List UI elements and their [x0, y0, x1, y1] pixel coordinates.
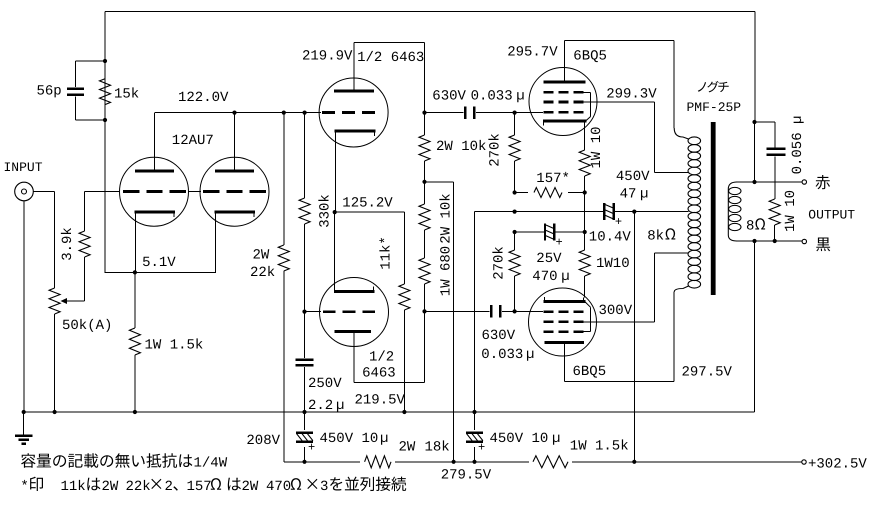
svg-text:0.033: 0.033	[481, 347, 523, 363]
svg-text:2W: 2W	[102, 479, 119, 495]
svg-text:47: 47	[620, 187, 637, 203]
12AU7b grid	[189, 191, 202, 193]
wire B+ rail	[284, 461, 360, 463]
svg-text:3: 3	[320, 479, 328, 495]
resistor R 1W 1.5k	[533, 456, 568, 468]
resistor R 270k (a)	[514, 113, 516, 135]
svg-text:219.5V: 219.5V	[355, 393, 406, 409]
svg-text:+302.5V: +302.5V	[808, 457, 867, 473]
6BQ5b grid g3	[544, 330, 554, 333]
OPT core	[711, 122, 716, 295]
svg-text:25V: 25V	[536, 251, 562, 267]
ground symbol	[23, 412, 25, 435]
capacitor C 630V 0.033u (top)	[425, 112, 464, 114]
terminal red	[802, 180, 806, 184]
wire feedback from red terminal	[754, 12, 756, 123]
capacitor C 450V 10u (a) electrolytic	[304, 412, 306, 430]
svg-text:50k(A): 50k(A)	[62, 318, 112, 334]
node plate b	[232, 111, 236, 115]
tube 12AU7 triode 1 envelope	[120, 157, 189, 226]
svg-text:0.033: 0.033	[471, 89, 513, 105]
transformer T1 label	[698, 82, 706, 92]
svg-text:2W 10k: 2W 10k	[436, 139, 486, 155]
resistor R 2W 18k	[365, 456, 391, 468]
svg-text:470: 470	[266, 479, 291, 495]
wire ground/feedback bus	[24, 411, 755, 413]
wire row C	[515, 231, 545, 233]
svg-text:1/2 6463: 1/2 6463	[357, 50, 424, 66]
svg-text:1/4W: 1/4W	[194, 456, 228, 472]
wire B+ feed	[633, 212, 635, 462]
svg-text:1W 1.5k: 1W 1.5k	[145, 338, 204, 354]
6BQ5a grid g2 (screen)	[544, 101, 554, 104]
svg-text:µ: µ	[516, 89, 524, 105]
OPT secondary winding	[728, 182, 737, 241]
svg-text:125.2V: 125.2V	[342, 196, 393, 212]
OPT primary winding	[674, 128, 688, 139]
wire 10.4V row B	[475, 211, 605, 213]
svg-text:1W 1.5k: 1W 1.5k	[570, 439, 629, 455]
wire left feedback drop	[104, 12, 106, 62]
svg-text:330k: 330k	[317, 194, 333, 228]
svg-text:µ: µ	[561, 269, 569, 285]
svg-text:295.7V: 295.7V	[507, 45, 558, 61]
svg-text:2W 10k: 2W 10k	[438, 193, 454, 243]
capacitor C 450V 10u (b) electrolytic	[474, 412, 476, 430]
capacitor C 2.2u 250V	[304, 312, 306, 358]
svg-text:18k: 18k	[425, 440, 450, 456]
resistor R 2W 10k (a)	[424, 113, 426, 135]
svg-text:6463: 6463	[362, 366, 396, 382]
svg-text:12AU7: 12AU7	[172, 133, 214, 149]
resistor R 2W 22k	[283, 113, 285, 245]
wire plate to OPT bottom	[565, 381, 675, 383]
resistor R 11k*	[399, 284, 410, 310]
6463a cathode	[335, 130, 376, 133]
svg-text:279.5V: 279.5V	[441, 468, 492, 484]
svg-text:15k: 15k	[114, 87, 139, 103]
node 56p/15k top	[103, 59, 107, 63]
svg-text:*: *	[20, 479, 28, 495]
node cathode/1W1.5k	[133, 270, 137, 274]
svg-text:0.056 µ: 0.056 µ	[790, 116, 806, 175]
note line 1	[21, 453, 35, 468]
capacitor 56p	[76, 60, 106, 62]
svg-text:22k: 22k	[250, 265, 275, 281]
12AU7a grid	[85, 191, 120, 193]
svg-text:219.9V: 219.9V	[302, 49, 353, 65]
node 2W22k top	[282, 111, 286, 115]
svg-text:630V: 630V	[432, 89, 466, 105]
6BQ5b grid g2 (screen)	[544, 320, 554, 323]
12AU7a plate	[135, 170, 174, 173]
svg-text:2: 2	[165, 479, 173, 495]
svg-text:630V: 630V	[482, 328, 516, 344]
wire screen 299.3V	[584, 101, 655, 103]
wire red output line	[754, 122, 756, 182]
svg-text:250V: 250V	[308, 376, 342, 392]
6BQ5b cathode (top)	[544, 300, 586, 303]
resistor R 1W 10 damping	[769, 199, 780, 225]
resistor R 1W 1.5k	[134, 272, 136, 328]
6463b grid	[305, 311, 322, 313]
6463a grid	[322, 111, 335, 114]
svg-text:297.5V: 297.5V	[682, 365, 733, 381]
svg-text:56p: 56p	[37, 84, 62, 100]
svg-text:+: +	[555, 235, 562, 249]
svg-text:157*: 157*	[536, 171, 570, 187]
wire 122.0V plate line	[155, 112, 322, 114]
wire plate to OPT top	[565, 40, 675, 42]
12AU7a cathode	[135, 210, 176, 213]
node 6BQ5b grid line left	[422, 309, 426, 313]
svg-text:157: 157	[187, 479, 212, 495]
svg-text:1/2: 1/2	[369, 349, 394, 365]
tube U2b 1/2 6463	[320, 278, 389, 347]
svg-text:450V 10: 450V 10	[490, 431, 549, 447]
capacitor C 0.056u	[755, 121, 776, 123]
terminal B+	[802, 460, 806, 464]
svg-text:5.1V: 5.1V	[142, 255, 176, 271]
svg-text:µ: µ	[526, 347, 534, 363]
resistor R 330k	[304, 113, 306, 198]
svg-text:INPUT: INPUT	[4, 160, 43, 175]
6BQ5b plate (bottom)	[545, 341, 584, 344]
svg-text:11k: 11k	[61, 479, 86, 495]
svg-text:8k: 8k	[647, 229, 664, 245]
wire black output line	[736, 240, 802, 242]
svg-text:2W: 2W	[253, 247, 270, 263]
capacitor C 630V 0.033u (bottom)	[425, 310, 490, 312]
tube 12AU7 triode 2 envelope	[200, 157, 269, 226]
node 56p/15k bottom	[103, 118, 107, 122]
wire 125.2V to 11k	[335, 211, 405, 213]
svg-text:PMF-25P: PMF-25P	[687, 100, 742, 115]
svg-text:270k: 270k	[487, 133, 503, 167]
12AU7b cathode	[215, 210, 256, 213]
capacitor C 450V 47u electrolytic	[603, 203, 605, 220]
terminal black	[802, 239, 806, 243]
svg-text:+: +	[308, 441, 315, 455]
input jack J1	[15, 182, 34, 201]
svg-text:450V: 450V	[616, 169, 650, 185]
wire screen 300V	[584, 321, 655, 323]
svg-text:2W: 2W	[242, 479, 259, 495]
svg-text:450V 10: 450V 10	[320, 431, 379, 447]
node coupling 1 right	[513, 111, 517, 115]
node 125.2V	[333, 210, 337, 214]
wire top feedback rail	[105, 11, 755, 13]
svg-text:208V: 208V	[246, 433, 280, 449]
svg-text:1W 10: 1W 10	[589, 126, 605, 168]
12AU7b plate	[215, 170, 254, 173]
svg-text:10.4V: 10.4V	[589, 230, 632, 246]
svg-text:470: 470	[532, 269, 557, 285]
wire jack tip to volume	[33, 191, 54, 193]
tube V2 6BQ5 (lower)	[529, 288, 597, 356]
resistor R 270k (b)	[514, 232, 516, 250]
svg-text:6BQ5: 6BQ5	[573, 49, 607, 65]
6BQ5b grid g1	[515, 310, 543, 312]
svg-text:300V: 300V	[599, 303, 633, 319]
6BQ5a grid g1	[515, 112, 543, 114]
wire plate feed 6463a	[425, 181, 454, 183]
node 330k top	[303, 111, 307, 115]
resistor R 1W 680	[419, 258, 430, 284]
node coupling 2 right	[513, 309, 517, 313]
capacitor C 25V 470u electrolytic	[544, 224, 546, 241]
6BQ5a plate	[544, 81, 586, 84]
wire black to ground line	[754, 241, 756, 412]
svg-text:6BQ5: 6BQ5	[573, 364, 607, 380]
wire jack sleeve down	[23, 201, 25, 412]
svg-text:3.9k: 3.9k	[60, 227, 76, 261]
wire cathode bus 5.1V	[105, 271, 216, 273]
volume pot VR 50k(A)	[49, 288, 60, 314]
svg-text:8: 8	[746, 219, 754, 235]
svg-text:22k: 22k	[126, 479, 151, 495]
svg-text:µ: µ	[552, 431, 560, 447]
node coupling 1	[422, 111, 426, 115]
svg-text:2W: 2W	[399, 440, 416, 456]
resistor R 2W 10k (b)	[419, 204, 430, 230]
6BQ5a grid g3	[544, 91, 554, 94]
svg-text:122.0V: 122.0V	[178, 90, 229, 106]
node 279.5V feed	[422, 180, 426, 184]
resistor R 15k	[100, 79, 111, 105]
svg-text:1W10: 1W10	[596, 256, 630, 272]
resistor R 1W 10 (b)	[584, 232, 586, 250]
svg-text:1W 680: 1W 680	[438, 246, 454, 296]
svg-text:OUTPUT: OUTPUT	[808, 208, 855, 223]
svg-text:11k*: 11k*	[378, 236, 394, 270]
resistor R 1W 10 (a)	[584, 125, 586, 150]
wire cathode chain mid	[584, 193, 586, 233]
6463b cathode (top)	[334, 290, 375, 293]
6BQ5a cathode	[543, 120, 587, 123]
node 6463b grid	[302, 310, 306, 314]
svg-text:270k: 270k	[491, 246, 507, 280]
svg-text:+: +	[478, 441, 485, 455]
6BQ5b suppressor tie	[584, 331, 591, 333]
svg-text:+: +	[615, 215, 622, 229]
svg-text:299.3V: 299.3V	[606, 87, 657, 103]
svg-text:1W 10: 1W 10	[783, 190, 799, 232]
resistor R 157*	[513, 190, 517, 194]
6463a plate	[334, 90, 374, 93]
wire grid bias drop	[474, 212, 476, 412]
6BQ5a suppressor tie	[584, 91, 591, 93]
6463b plate (bottom)	[335, 330, 372, 333]
resistor R 3.9k	[84, 192, 86, 232]
svg-text:µ: µ	[640, 187, 648, 203]
svg-text:µ: µ	[380, 431, 388, 447]
